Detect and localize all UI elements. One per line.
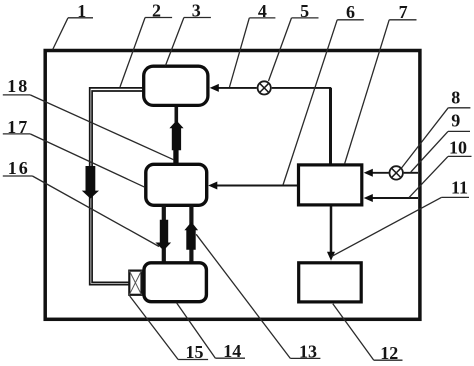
label 1 with leader to enclosure [53,18,93,50]
label 11 with leader to wire 11 arrow [332,197,470,256]
wire: vertical drop from corner down to block 7 top [329,88,332,164]
svg-text:17: 17 [7,117,29,137]
label 15 with leader to filter 15 [130,296,208,360]
label 14 with leader to bottom block [177,303,246,358]
label 2 with leader to double pipe [120,18,172,88]
valve 5 (circle with X) [258,81,271,94]
label 6 with leader to pipe 6 [283,20,364,185]
label 8 with leader to valve 8 [402,108,471,168]
svg-text:4: 4 [258,1,267,21]
block 17 (middle rounded box) [146,164,207,205]
label 18 with leader to wire between 17 and 3 [3,95,174,160]
arrowhead into block 17 [208,182,217,190]
svg-text:7: 7 [399,2,408,22]
bold flow arrow (down) on wire 16 [155,220,171,251]
svg-text:12: 12 [380,343,398,363]
wire 10: pipe from boundary into block 7 lower [372,197,419,199]
label 9 with leader to pipe 9 [411,131,470,172]
label 13 with leader to right up pipe [196,234,320,358]
valve 8 (circle with X) [390,166,403,179]
wire 4: pipe from valve 5 into block 3, continuing to corner above block 7 [218,87,331,89]
svg-text:2: 2 [152,1,161,21]
svg-text:6: 6 [346,2,355,22]
wire 2: double-line pipe from block 3 left, down left side, to filter 15 [90,88,144,285]
svg-text:15: 15 [186,342,204,362]
block 14 (bottom rounded box) [144,263,206,302]
svg-text:3: 3 [192,1,201,21]
label 4 with leader to pipe 4 [230,18,276,87]
wire 13: right line bottom box up to middle box [189,206,193,263]
svg-text:14: 14 [223,341,241,361]
filter 15 (small square with X) [129,271,141,295]
arrowhead into block 3 [210,84,219,92]
label 7 with leader to block 7 [345,20,417,164]
block 7 (right rectangle) [299,165,362,205]
svg-text:5: 5 [300,1,309,21]
enclosure box 1 (system boundary) [45,51,420,320]
svg-text:1: 1 [77,1,86,21]
arrowhead into block 7 lower [364,194,373,202]
arrowhead into block 12 [327,252,335,261]
wire 11: block 7 down to block 12 [330,207,333,254]
wire: block 17 up to block 3 [175,107,179,163]
wire 16: left line middle box down to bottom box [162,206,166,263]
svg-text:9: 9 [451,111,460,131]
label 10 with leader to pipe 10 [409,156,472,197]
block 3 (top rounded box) [144,66,208,105]
wire 6: pipe from block 7 into block 17 [217,185,298,187]
svg-text:11: 11 [451,178,468,198]
bold flow arrow (up) between block 17 and block 3 [169,121,183,164]
block 12 (bottom right rectangle) [299,263,362,302]
label 3 with leader to block 3 [166,18,211,66]
svg-text:10: 10 [449,138,467,158]
bold flow arrow (down) on left pipe [82,166,99,199]
label 5 with leader to valve 5 [269,18,319,81]
label 16 with leader to left down pipe [3,176,159,247]
svg-text:8: 8 [451,88,460,108]
arrowhead into block 7 upper [364,169,373,177]
svg-text:18: 18 [7,76,29,96]
svg-text:16: 16 [8,158,30,178]
svg-text:13: 13 [299,341,317,361]
label 17 with leader to middle block [3,134,145,187]
label 12 with leader to block 12 [333,304,403,360]
wire 9: pipe from boundary through valve 8 into block 7 [372,172,419,174]
bold flow arrow (up) on wire 13 [184,222,198,250]
